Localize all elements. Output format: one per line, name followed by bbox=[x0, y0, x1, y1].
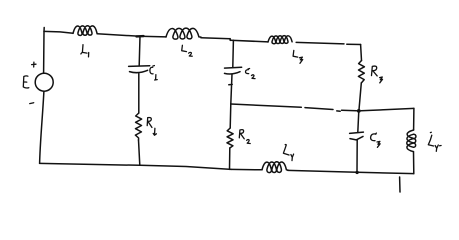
wire node B to L3 bbox=[230, 40, 268, 42]
inductor L2 bbox=[166, 28, 201, 56]
wire L5 bottom lead bbox=[413, 152, 415, 174]
wire bottom rail: L4 to C3 node bbox=[288, 170, 357, 172]
capacitor C1 top lead bbox=[138, 36, 141, 65]
wire L3 to top-right corner (hand gap) bbox=[296, 42, 360, 44]
resistor R2 bbox=[227, 128, 250, 148]
wire C2 down to middle node (with small tick) bbox=[229, 74, 232, 104]
wire L5 top lead bbox=[413, 108, 415, 130]
wire top rail: corner to L1 bbox=[44, 31, 73, 33]
capacitor C2 top lead bbox=[232, 40, 235, 67]
wire L2 to node B bbox=[201, 38, 230, 39]
wire top-right corner down to R3 bbox=[360, 45, 363, 61]
wire R3 to cross node bbox=[359, 83, 361, 111]
node B (C2 top junction) bbox=[229, 39, 231, 40]
wire C3 to bottom rail bbox=[356, 140, 358, 172]
wire middle rail: C2 node to cross node (hand gaps) bbox=[231, 104, 357, 111]
capacitor C2 bbox=[225, 67, 256, 78]
wire node A to L2 bbox=[140, 35, 166, 38]
inductor L5 bbox=[407, 130, 441, 152]
voltage source E bbox=[23, 62, 53, 103]
wire L1 to node C1 bbox=[97, 34, 140, 37]
wire bottom rail: R2 to L4 bbox=[231, 168, 262, 170]
capacitor C3 bbox=[350, 132, 381, 147]
wire R1 to bottom rail bbox=[139, 140, 140, 165]
wire C1 to R1 bbox=[138, 74, 140, 113]
capacitor C1 bbox=[129, 66, 158, 80]
node A (C1 top junction) bbox=[137, 35, 144, 38]
wire R2 to bottom rail bbox=[229, 148, 231, 169]
resistor R2 top lead bbox=[229, 104, 232, 128]
stray stroke below bottom-right bbox=[399, 177, 401, 192]
inductor L4 bbox=[262, 144, 294, 172]
resistor R1 bbox=[135, 113, 156, 140]
wire source bottom to bottom-left corner bbox=[40, 91, 44, 163]
node D (C3 bottom junction) bbox=[355, 171, 358, 174]
wire bottom rail: R1 to R2 bbox=[140, 165, 231, 169]
node C (cross junction of middle rail, R3 and C3) bbox=[357, 109, 361, 113]
wire bottom rail: left corner to R1 bbox=[40, 163, 140, 165]
wire bottom rail: C3 node to right corner bbox=[357, 172, 414, 173]
wire middle rail: cross node to L5 corner bbox=[361, 108, 414, 110]
resistor R3 bbox=[358, 61, 382, 84]
inductor L3 bbox=[268, 36, 303, 64]
wire top-left corner and left rail to source bbox=[43, 28, 46, 74]
capacitor C3 top lead bbox=[358, 111, 359, 132]
inductor L1 bbox=[73, 26, 97, 57]
